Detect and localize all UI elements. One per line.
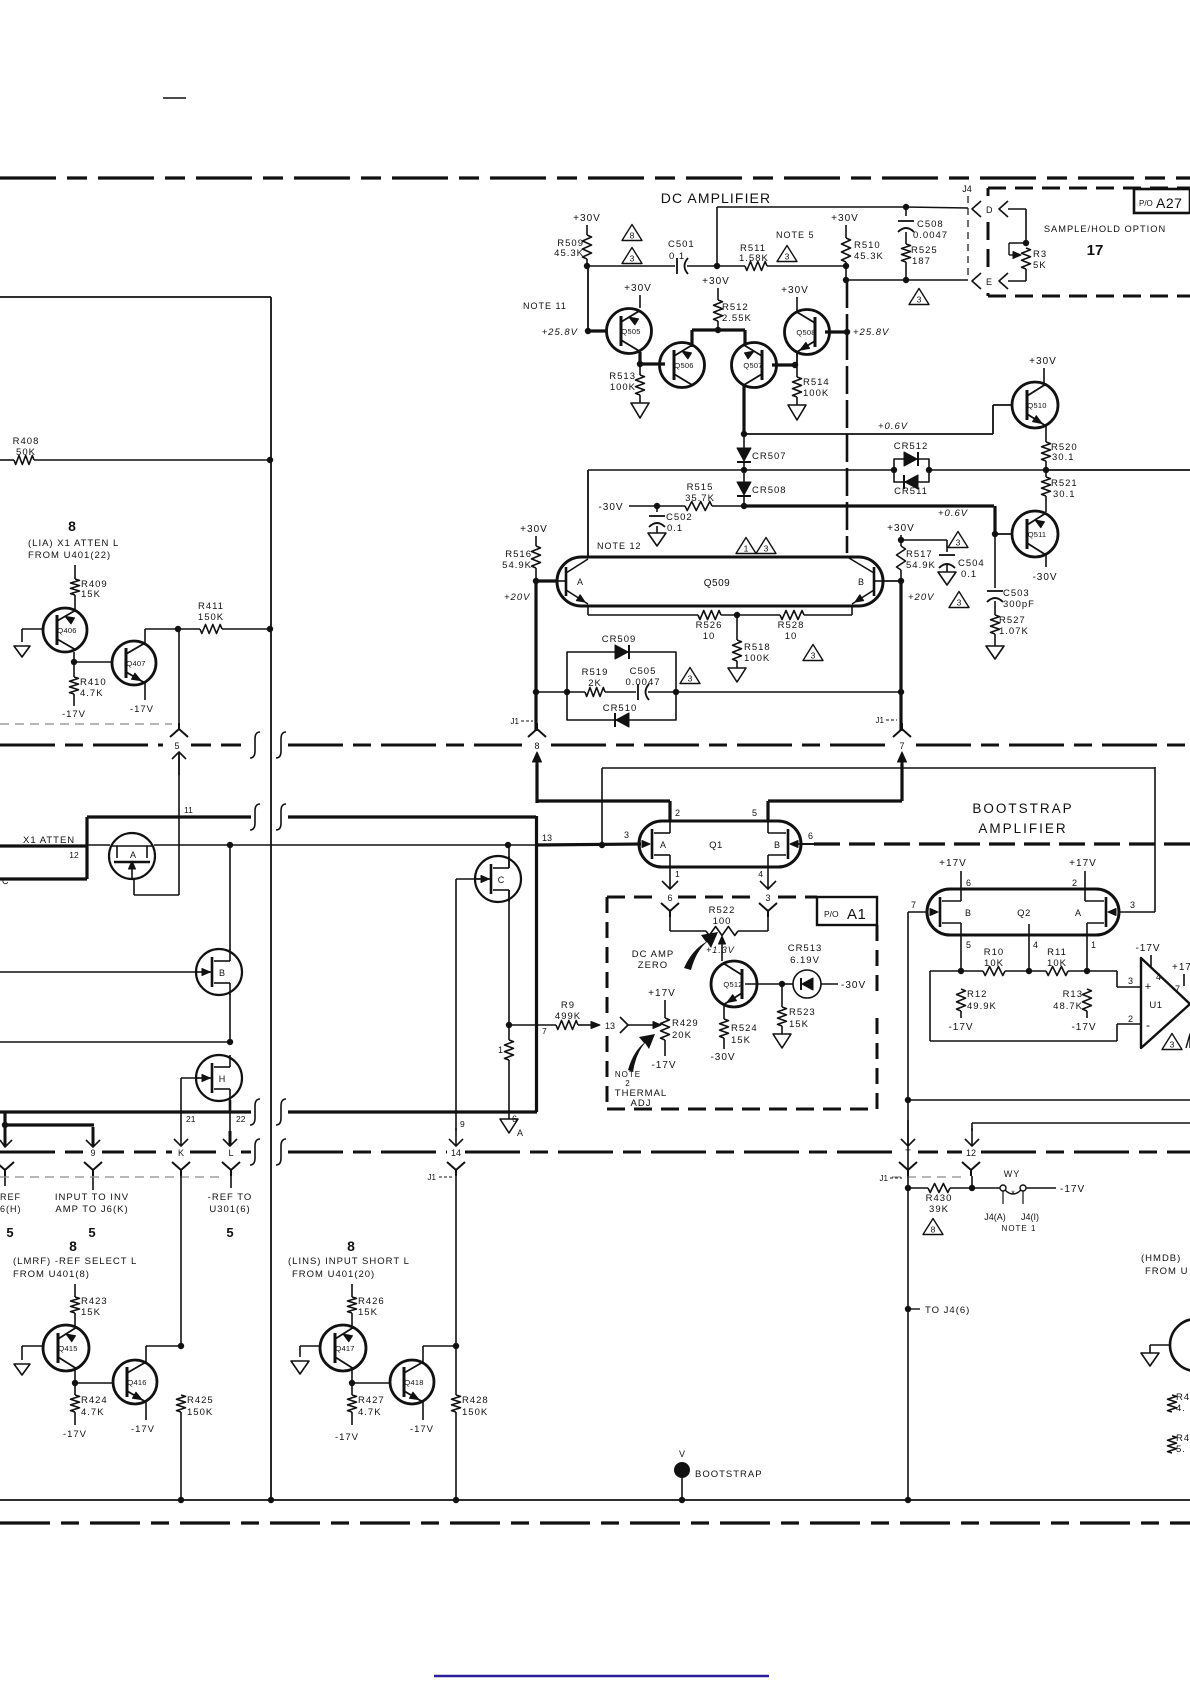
svg-text:39K: 39K [929, 1204, 949, 1215]
svg-text:9: 9 [460, 1119, 465, 1129]
svg-text:CR507: CR507 [752, 451, 787, 462]
svg-text:C502: C502 [666, 512, 693, 523]
svg-text:+17V: +17V [1069, 858, 1097, 869]
wire Q511 base [992, 506, 1013, 537]
wire J1-5 riser [178, 631, 180, 817]
connector J4 line [962, 184, 972, 276]
label +20V right [908, 592, 935, 603]
wire [717, 321, 719, 330]
svg-text:L: L [228, 1148, 233, 1158]
svg-text:J4: J4 [962, 184, 972, 194]
svg-text:5: 5 [174, 741, 179, 751]
svg-text:J1: J1 [876, 716, 885, 725]
resistor R410 [70, 677, 107, 699]
resistor R427 [348, 1395, 385, 1418]
svg-text:15K: 15K [731, 1035, 751, 1046]
svg-text:+30V: +30V [573, 213, 601, 224]
wire Q509 emitters [588, 606, 852, 618]
label LINS [288, 1256, 410, 1280]
label LMRF [13, 1256, 137, 1280]
junction [175, 626, 181, 632]
wire [1045, 470, 1047, 512]
wire Q416 collector [146, 1343, 184, 1364]
junction [891, 467, 932, 473]
wire A source [0, 0, 1, 1]
svg-text:R515: R515 [687, 482, 714, 493]
label NOTE 11 [523, 301, 567, 311]
break symbol [276, 732, 286, 758]
resistor R509 [554, 235, 591, 259]
potentiometer R429 [648, 988, 699, 1071]
labels J4(A) J4(I) [984, 1212, 1039, 1233]
net -30V [598, 502, 685, 513]
label THERMAL ADJ [615, 1088, 667, 1109]
svg-text:+: + [1145, 981, 1151, 993]
break symbol [250, 1099, 260, 1125]
svg-text:7: 7 [1175, 984, 1180, 994]
node V BOOTSTRAP [674, 1449, 763, 1503]
svg-text:-REF TO: -REF TO [208, 1192, 253, 1203]
break symbol [276, 1139, 286, 1165]
ground [14, 1346, 30, 1375]
wire [639, 364, 641, 403]
svg-text:C501: C501 [668, 239, 695, 250]
transistor partial [1150, 1319, 1190, 1371]
svg-text:3: 3 [1128, 976, 1133, 986]
svg-text:CR513: CR513 [788, 943, 823, 954]
wire Q512 emitter [724, 1003, 745, 1019]
svg-text:V: V [679, 1449, 685, 1459]
wire +30V R510 [831, 213, 859, 238]
capacitor C503 [987, 534, 1035, 610]
blue underline mark [434, 1675, 769, 1678]
label CR509 [602, 634, 637, 645]
svg-text:7: 7 [542, 1026, 547, 1036]
wire +17V pin2 [1069, 858, 1097, 889]
wire R3 to E [1008, 269, 1026, 281]
wire [74, 1284, 76, 1297]
svg-text:U1: U1 [1149, 1000, 1162, 1011]
junction [714, 263, 720, 269]
svg-text:R523: R523 [789, 1007, 816, 1018]
svg-text:-17V: -17V [1060, 1184, 1085, 1195]
potentiometer R522 [670, 905, 768, 936]
svg-text:6(H): 6(H) [0, 1204, 22, 1214]
transistor Q417 [320, 1325, 366, 1371]
svg-text:187: 187 [912, 256, 931, 267]
svg-text:4.7K: 4.7K [80, 688, 104, 699]
transistor Q418 [390, 1360, 434, 1404]
Q1 pin 1 arrow [662, 867, 680, 889]
svg-text:J1: J1 [428, 1173, 437, 1182]
label SAMPLE/HOLD OPTION [1044, 224, 1166, 234]
label DC AMP ZERO [632, 949, 674, 971]
svg-text:Q417: Q417 [335, 1344, 354, 1353]
wire Q418 emitter [410, 1400, 434, 1435]
label CR511 [894, 486, 928, 497]
svg-text:R516: R516 [505, 549, 532, 560]
connector J4-D [972, 201, 1008, 217]
U1 pin labels [1128, 972, 1180, 1024]
svg-text:2: 2 [1128, 1014, 1133, 1024]
svg-text:+30V: +30V [624, 283, 652, 294]
wire [533, 568, 539, 584]
svg-text:22: 22 [236, 1114, 246, 1124]
svg-text:CR512: CR512 [894, 441, 929, 452]
svg-text:6: 6 [808, 831, 813, 841]
note triangle 3 [622, 248, 642, 264]
wire C gate [456, 879, 480, 1131]
svg-text:R411: R411 [198, 601, 224, 612]
svg-text:U301(6): U301(6) [209, 1204, 250, 1215]
resistor R528 [778, 611, 805, 643]
svg-text:150K: 150K [198, 612, 224, 623]
svg-text:R527: R527 [999, 615, 1026, 626]
svg-text:R4: R4 [1176, 1433, 1190, 1444]
label 17 [1087, 242, 1104, 259]
svg-text:Q509: Q509 [704, 578, 730, 589]
J1 pin T [880, 1120, 917, 1183]
svg-text:4.7K: 4.7K [358, 1407, 382, 1418]
wire B to H [227, 994, 233, 1045]
note triangle partial [1186, 1034, 1190, 1048]
ground [631, 403, 649, 418]
feedback loop box [567, 652, 676, 720]
svg-text:AMPLIFIER: AMPLIFIER [978, 821, 1067, 836]
transistor Q507 [732, 343, 777, 388]
svg-text:R514: R514 [803, 377, 830, 388]
diode CR508 [737, 482, 787, 496]
wire H source [229, 1100, 232, 1112]
wire Q509A collector riser [587, 470, 589, 557]
wire +25.8V rail [542, 267, 592, 338]
resistor R514 [793, 377, 830, 399]
ground [14, 629, 30, 657]
svg-text:(LMRF) -REF SELECT L: (LMRF) -REF SELECT L [13, 1256, 137, 1267]
svg-text:R526: R526 [696, 620, 723, 631]
svg-text:8: 8 [69, 1238, 77, 1254]
wire Q407 collector [145, 629, 178, 645]
break symbol [250, 1139, 260, 1165]
J1 pin (left edge) [0, 1127, 14, 1186]
wire Q510 +30V [1029, 356, 1057, 385]
pin label 2 [675, 808, 680, 818]
svg-text:K: K [178, 1148, 184, 1158]
svg-text:R410: R410 [80, 677, 107, 688]
svg-text:+25.8V: +25.8V [542, 327, 579, 338]
note triangle 3 [909, 289, 929, 305]
jumper WY [972, 1169, 1026, 1204]
svg-text:J1: J1 [511, 717, 520, 726]
wire Q2 gate7 net [905, 912, 927, 1187]
svg-text:R9: R9 [561, 1000, 575, 1011]
svg-text:FROM U401(22): FROM U401(22) [28, 550, 111, 561]
heavy net line y=1112 [0, 1110, 537, 1113]
svg-text:+30V: +30V [781, 285, 809, 296]
Q2 B half [930, 889, 971, 935]
resistor R521 [1042, 477, 1078, 500]
transistor Q511 [1012, 511, 1058, 557]
resistor R423 [71, 1296, 108, 1318]
svg-text:Q415: Q415 [58, 1344, 77, 1353]
svg-text:+30V: +30V [831, 213, 859, 224]
svg-text:5: 5 [6, 1225, 13, 1240]
resistor R512 [714, 300, 752, 324]
wire [1071, 1011, 1096, 1033]
svg-text:12: 12 [966, 1148, 976, 1158]
Q1 label [709, 840, 723, 851]
svg-text:-17V: -17V [1135, 943, 1160, 954]
svg-text:45.3K: 45.3K [554, 248, 584, 259]
svg-text:-30V: -30V [1032, 572, 1057, 583]
P/O A1 dashed box [607, 897, 877, 1109]
pin label 5 [752, 808, 757, 818]
wire D net dashes [906, 207, 968, 208]
heavy wire J1-7 net [898, 581, 904, 731]
resistor R525 [902, 244, 938, 267]
wire net y=1042 [0, 1041, 230, 1043]
svg-text:NOTE 12: NOTE 12 [597, 541, 642, 551]
svg-text:10K: 10K [1047, 958, 1067, 969]
svg-text:2: 2 [625, 1079, 630, 1088]
resistor R426 [348, 1296, 385, 1318]
svg-text:6: 6 [667, 893, 672, 903]
svg-text:100K: 100K [744, 653, 770, 664]
wire Q508 base [825, 329, 850, 335]
capacitor C508 [898, 219, 948, 241]
svg-text:Q1: Q1 [709, 840, 723, 851]
wire Q511 collector [1032, 554, 1057, 583]
svg-text:-17V: -17V [410, 1424, 434, 1435]
label INPUT TO INV [55, 1192, 129, 1240]
svg-text:A: A [130, 850, 136, 860]
capacitor C501 [668, 239, 695, 274]
wire pin1 [1084, 935, 1096, 974]
bottom horizontal rail [0, 1499, 1190, 1501]
pin label 3 [624, 830, 629, 840]
wire [74, 595, 76, 609]
svg-text:+17V: +17V [648, 988, 676, 999]
bottom boundary dashed bus [0, 1521, 1190, 1524]
J1 pin K [172, 1148, 190, 1176]
svg-text:D: D [986, 205, 994, 215]
svg-text:5: 5 [752, 808, 757, 818]
pin label 13 [542, 833, 552, 843]
label HMDB [1141, 1253, 1188, 1277]
svg-text:+30V: +30V [1029, 356, 1057, 367]
wire Q415 base [22, 1345, 43, 1347]
section pin 8 label [69, 1238, 77, 1254]
wire C source [506, 890, 512, 1028]
wire +30V R516 [520, 524, 548, 546]
svg-text:Q512: Q512 [723, 980, 742, 989]
svg-text:15K: 15K [358, 1307, 378, 1318]
wire [905, 207, 907, 244]
heavy input wire C [0, 876, 87, 886]
capacitor C504 [939, 555, 985, 580]
junction [903, 204, 909, 210]
Q2 label [1017, 908, 1031, 919]
dual FET Q2 [927, 889, 1119, 935]
svg-text:NOTE: NOTE [615, 1070, 641, 1079]
pin label 22 [236, 1114, 246, 1124]
svg-text:15K: 15K [81, 1307, 101, 1318]
svg-text:3: 3 [624, 830, 629, 840]
svg-text:R522: R522 [709, 905, 736, 916]
svg-text:2: 2 [1072, 878, 1077, 888]
wire Q406 base [22, 628, 43, 630]
wire [687, 265, 745, 267]
svg-text:J4(A): J4(A) [984, 1212, 1006, 1222]
svg-text:10: 10 [785, 631, 798, 642]
net y=1123 [972, 1123, 1190, 1131]
wire [74, 1313, 76, 1326]
ground [1141, 1345, 1159, 1366]
wire Q507 collector [743, 330, 746, 345]
wire to bus L [229, 1112, 231, 1131]
svg-text:R423: R423 [81, 1296, 108, 1307]
svg-text:20K: 20K [672, 1030, 692, 1041]
wire Q509B base out [883, 580, 901, 582]
svg-text:8: 8 [931, 1225, 936, 1235]
svg-text:6: 6 [966, 878, 971, 888]
note triangle 3 [777, 246, 797, 262]
Q2 A half [1075, 889, 1116, 935]
svg-text:48.7K: 48.7K [1053, 1001, 1083, 1012]
P/O A27 designator box [1134, 189, 1190, 213]
label R4 fragment2 [1168, 1433, 1190, 1455]
resistor R524 [720, 1019, 758, 1046]
analog switch FET C [475, 856, 521, 902]
wire [796, 365, 798, 405]
wire +30V R512 [702, 276, 730, 300]
svg-text:1: 1 [744, 544, 749, 554]
diode CR507 [737, 448, 787, 462]
pin label 12 [69, 850, 79, 860]
svg-text:A27: A27 [1156, 195, 1182, 211]
R9 input net [509, 1000, 600, 1030]
svg-text:2: 2 [675, 808, 680, 818]
svg-text:Q505: Q505 [621, 327, 640, 336]
wire through FET A [87, 844, 536, 846]
svg-text:5: 5 [966, 940, 971, 950]
svg-text:B: B [774, 840, 780, 850]
svg-text:7: 7 [911, 900, 916, 910]
label LIA [28, 538, 119, 561]
wire Q507 emitter [742, 385, 745, 434]
svg-text:0.1: 0.1 [667, 523, 683, 534]
svg-text:Q506: Q506 [674, 361, 693, 370]
wire riser to FET A [134, 817, 179, 895]
note 2 thermal arrow [628, 1034, 655, 1072]
Q1 A half [642, 821, 670, 867]
wire +17V pin6 [939, 858, 971, 889]
diode CR512 box [894, 452, 929, 489]
note triangle 8 [923, 1219, 943, 1235]
wire Q417 base [300, 1345, 320, 1347]
svg-text:5: 5 [226, 1225, 233, 1240]
wire -17V [1026, 1184, 1085, 1195]
svg-text:C505: C505 [630, 666, 657, 677]
svg-text:13: 13 [542, 833, 552, 843]
svg-text:R525: R525 [911, 245, 938, 256]
connector bus J1 row 2 [0, 1151, 1190, 1154]
svg-text:DC AMP: DC AMP [632, 949, 674, 960]
svg-text:B: B [858, 577, 864, 587]
svg-text:45.3K: 45.3K [854, 251, 884, 262]
svg-text:NOTE 5: NOTE 5 [776, 230, 815, 240]
svg-text:0.0047: 0.0047 [625, 677, 660, 688]
svg-text:R512: R512 [722, 302, 749, 313]
Q509 B half [704, 558, 883, 604]
svg-text:0.0047: 0.0047 [913, 230, 948, 241]
junction [227, 842, 233, 848]
resistor R13 [1053, 989, 1091, 1012]
resistor R515 [685, 482, 715, 511]
wire [508, 1025, 510, 1119]
svg-text:15K: 15K [789, 1019, 809, 1030]
heavy wire J1-8 to Q1 [537, 764, 670, 821]
svg-text:-17V: -17V [1071, 1022, 1096, 1033]
svg-text:5: 5 [88, 1225, 95, 1240]
wire [767, 263, 849, 269]
svg-text:2.55K: 2.55K [722, 313, 752, 324]
pin label 9 [460, 1119, 465, 1129]
svg-text:-17V: -17V [62, 709, 86, 720]
transistor Q407 [112, 641, 156, 685]
resistor R12 [957, 989, 997, 1012]
label CR512 [894, 441, 929, 452]
svg-text:BOOTSTRAP: BOOTSTRAP [972, 801, 1073, 816]
svg-text:5K: 5K [1033, 260, 1047, 271]
Q1 B half [768, 821, 814, 867]
svg-text:P/O: P/O [1139, 199, 1153, 208]
dual transistor Q509 [557, 557, 883, 606]
resistor R520 [1042, 442, 1078, 463]
pin 3 label [1130, 900, 1135, 910]
wire K below bus [180, 1176, 182, 1347]
wire bootstrap riser [907, 1188, 909, 1500]
wire Q507 base [772, 362, 798, 368]
heavy vertical 13-net [535, 816, 538, 846]
transistor Q505 [607, 309, 652, 354]
svg-text:Q406: Q406 [57, 626, 76, 635]
svg-text:3: 3 [688, 674, 693, 684]
svg-text:(HMDB): (HMDB) [1141, 1253, 1181, 1264]
label TO J4(6) [905, 1305, 971, 1316]
svg-text:-: - [1146, 1018, 1150, 1032]
svg-text:-30V: -30V [598, 502, 623, 513]
svg-text:R513: R513 [609, 371, 636, 382]
svg-text:300pF: 300pF [1003, 599, 1035, 610]
wire [587, 265, 675, 267]
resistor R518 [733, 615, 771, 664]
svg-text:R524: R524 [731, 1023, 758, 1034]
svg-text:R519: R519 [582, 667, 609, 678]
svg-text:-17V: -17V [63, 1429, 87, 1440]
pin 6 entry [661, 893, 679, 931]
svg-text:10: 10 [703, 631, 716, 642]
svg-text:+30V: +30V [520, 524, 548, 535]
svg-text:0.1: 0.1 [961, 569, 977, 580]
svg-text:R430: R430 [926, 1193, 953, 1204]
wire H gate to bus K [180, 1112, 182, 1131]
svg-text:CR511: CR511 [894, 486, 928, 497]
wire B gate [0, 971, 198, 973]
wire [741, 434, 747, 473]
svg-text:49.9K: 49.9K [967, 1001, 997, 1012]
resistor R519 [582, 667, 609, 697]
